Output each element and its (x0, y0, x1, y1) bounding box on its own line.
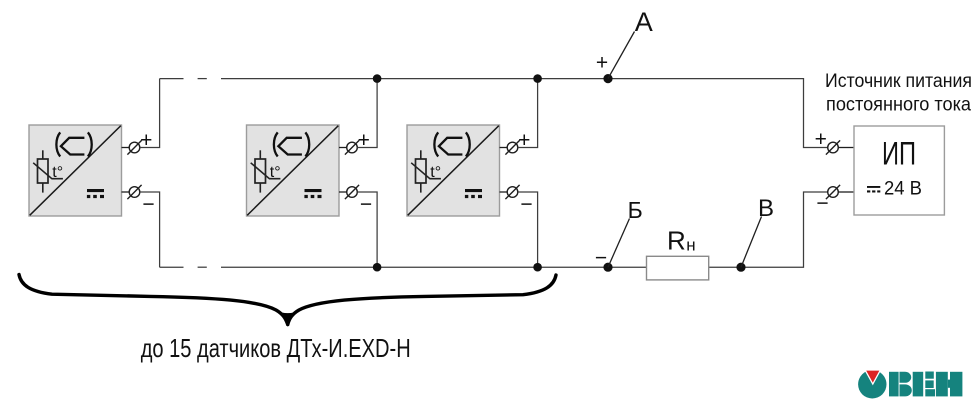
junction sensor2 + (373, 74, 382, 83)
svg-text:R: R (667, 226, 686, 256)
brace apex tip (277, 311, 300, 327)
brace (group of sensors) left half (19, 275, 288, 325)
node Б dot (603, 263, 612, 272)
svg-text:−: − (816, 192, 828, 215)
node A leader line (608, 32, 635, 79)
logo letter В (889, 372, 899, 397)
logo letter Е (913, 372, 924, 397)
bottom bus break dash (198, 266, 207, 268)
sensor transmitter 2 (ДТх-И) (247, 79, 378, 268)
node В leader line (741, 217, 762, 268)
bottom wire resistor to supply (709, 192, 828, 267)
svg-text:н: н (686, 236, 695, 255)
bottom - bus wire (160, 266, 184, 268)
sensor transmitter 3 (ДТх-И) (407, 79, 538, 268)
svg-text:−: − (595, 246, 607, 269)
svg-text:ИП: ИП (882, 136, 916, 172)
top bus break dash (198, 78, 207, 80)
svg-text:постоянного тока: постоянного тока (826, 95, 971, 116)
logo O circle (858, 370, 886, 398)
sensor transmitter 1 (ДТх-И) (29, 79, 160, 268)
power supply ИП box (854, 126, 944, 215)
svg-text:24 В: 24 В (884, 179, 922, 200)
load resistor Rн body (647, 256, 709, 280)
OWEN logo (858, 370, 962, 398)
top + bus wire (160, 78, 184, 80)
junction sensor3 + (533, 74, 542, 83)
svg-text:Б: Б (628, 197, 643, 223)
svg-text:до 15 датчиков ДТх-И.EXD-Н: до 15 датчиков ДТх-И.EXD-Н (141, 333, 411, 363)
brace right half (288, 275, 556, 325)
node A dot (603, 74, 612, 83)
svg-text:А: А (635, 7, 653, 37)
supply + terminal (838, 147, 854, 149)
node В dot (736, 263, 745, 272)
logo letter Н (936, 372, 948, 397)
DC symbol in supply (867, 186, 880, 188)
svg-text:+: + (815, 128, 827, 151)
svg-text:Источник питания: Источник питания (825, 71, 972, 92)
junction sensor2 - (373, 263, 382, 272)
supply - terminal (838, 191, 854, 193)
junction sensor3 - (533, 263, 542, 272)
node Б leader line (608, 219, 630, 268)
top + bus wire to supply (221, 79, 828, 148)
logo red wedge (865, 370, 880, 384)
svg-text:В: В (758, 195, 774, 222)
bottom - bus wire to resistor (221, 266, 647, 268)
svg-text:+: + (596, 52, 608, 75)
